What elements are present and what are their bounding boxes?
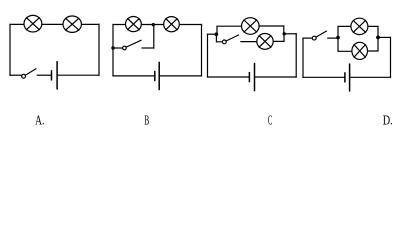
wire C left: [207, 34, 209, 77]
lamp L-B1: [125, 17, 141, 32]
wire B branch-left: [113, 47, 123, 49]
node C left junction: [215, 32, 219, 36]
node C right junction: [283, 32, 286, 35]
wire D lower-branch-right: [367, 37, 378, 51]
wire D top-mid: [328, 37, 338, 39]
wire C right-top: [284, 33, 296, 35]
wire C right: [295, 34, 297, 77]
wire D bottom-left: [303, 76, 344, 78]
battery A: [52, 62, 58, 89]
wire D lower-branch: [338, 38, 352, 52]
wire C upper-branch-up: [217, 26, 241, 34]
wire A right: [98, 24, 100, 75]
node B top junction: [152, 23, 155, 26]
lamp L-C2: [257, 34, 273, 50]
wire C left-stub: [208, 33, 217, 35]
wire D left: [302, 38, 304, 77]
wire D top-left: [303, 37, 312, 39]
wire B branch-right: [142, 47, 154, 49]
wire A left: [9, 24, 11, 75]
wire C bottom-left: [208, 76, 249, 78]
svg-text:A.: A.: [35, 114, 44, 129]
lamp L-D2: [352, 42, 368, 59]
wire C upper-branch-right: [259, 26, 284, 34]
wire B top: [113, 24, 202, 26]
switch S-C: [222, 35, 238, 44]
switch S-D: [312, 31, 326, 40]
node D left junction: [336, 36, 340, 40]
switch S-A: [22, 69, 36, 78]
lamp L-A2: [63, 16, 81, 32]
lamp L-A1: [24, 15, 42, 32]
wire B right: [201, 25, 203, 76]
node D right junction: [376, 36, 380, 40]
wire A bottom-mid: [37, 74, 50, 76]
battery B: [155, 63, 159, 90]
wire C lower-branch-down: [216, 34, 222, 42]
battery C: [249, 64, 254, 91]
wire A bottom-left: [10, 74, 22, 76]
lamp L-D1: [351, 18, 368, 34]
lamp L-B2: [164, 17, 180, 32]
wire B bottom-right: [160, 75, 202, 77]
wire C lower-branch-right: [273, 36, 284, 42]
wire C bottom-right: [255, 76, 296, 78]
wire D upper-branch: [338, 26, 351, 37]
lamp L-C1: [242, 18, 260, 35]
battery D: [345, 64, 350, 91]
svg-text:C: C: [268, 114, 273, 129]
wire D bottom-right: [350, 76, 390, 78]
wire B branch-up: [153, 25, 155, 48]
wire B left: [112, 25, 114, 76]
wire B bottom: [113, 75, 154, 77]
svg-text:D.: D.: [383, 114, 393, 129]
wire D top-right: [378, 36, 391, 38]
wire A bottom-right: [58, 74, 99, 76]
wire D upper-branch-right: [368, 26, 378, 37]
svg-text:B: B: [144, 114, 149, 129]
node B left junction: [111, 46, 114, 49]
wire C lower-branch-mid: [241, 41, 257, 43]
wire A top: [10, 23, 99, 25]
switch S-B: [123, 40, 141, 50]
wire D right: [390, 37, 392, 77]
